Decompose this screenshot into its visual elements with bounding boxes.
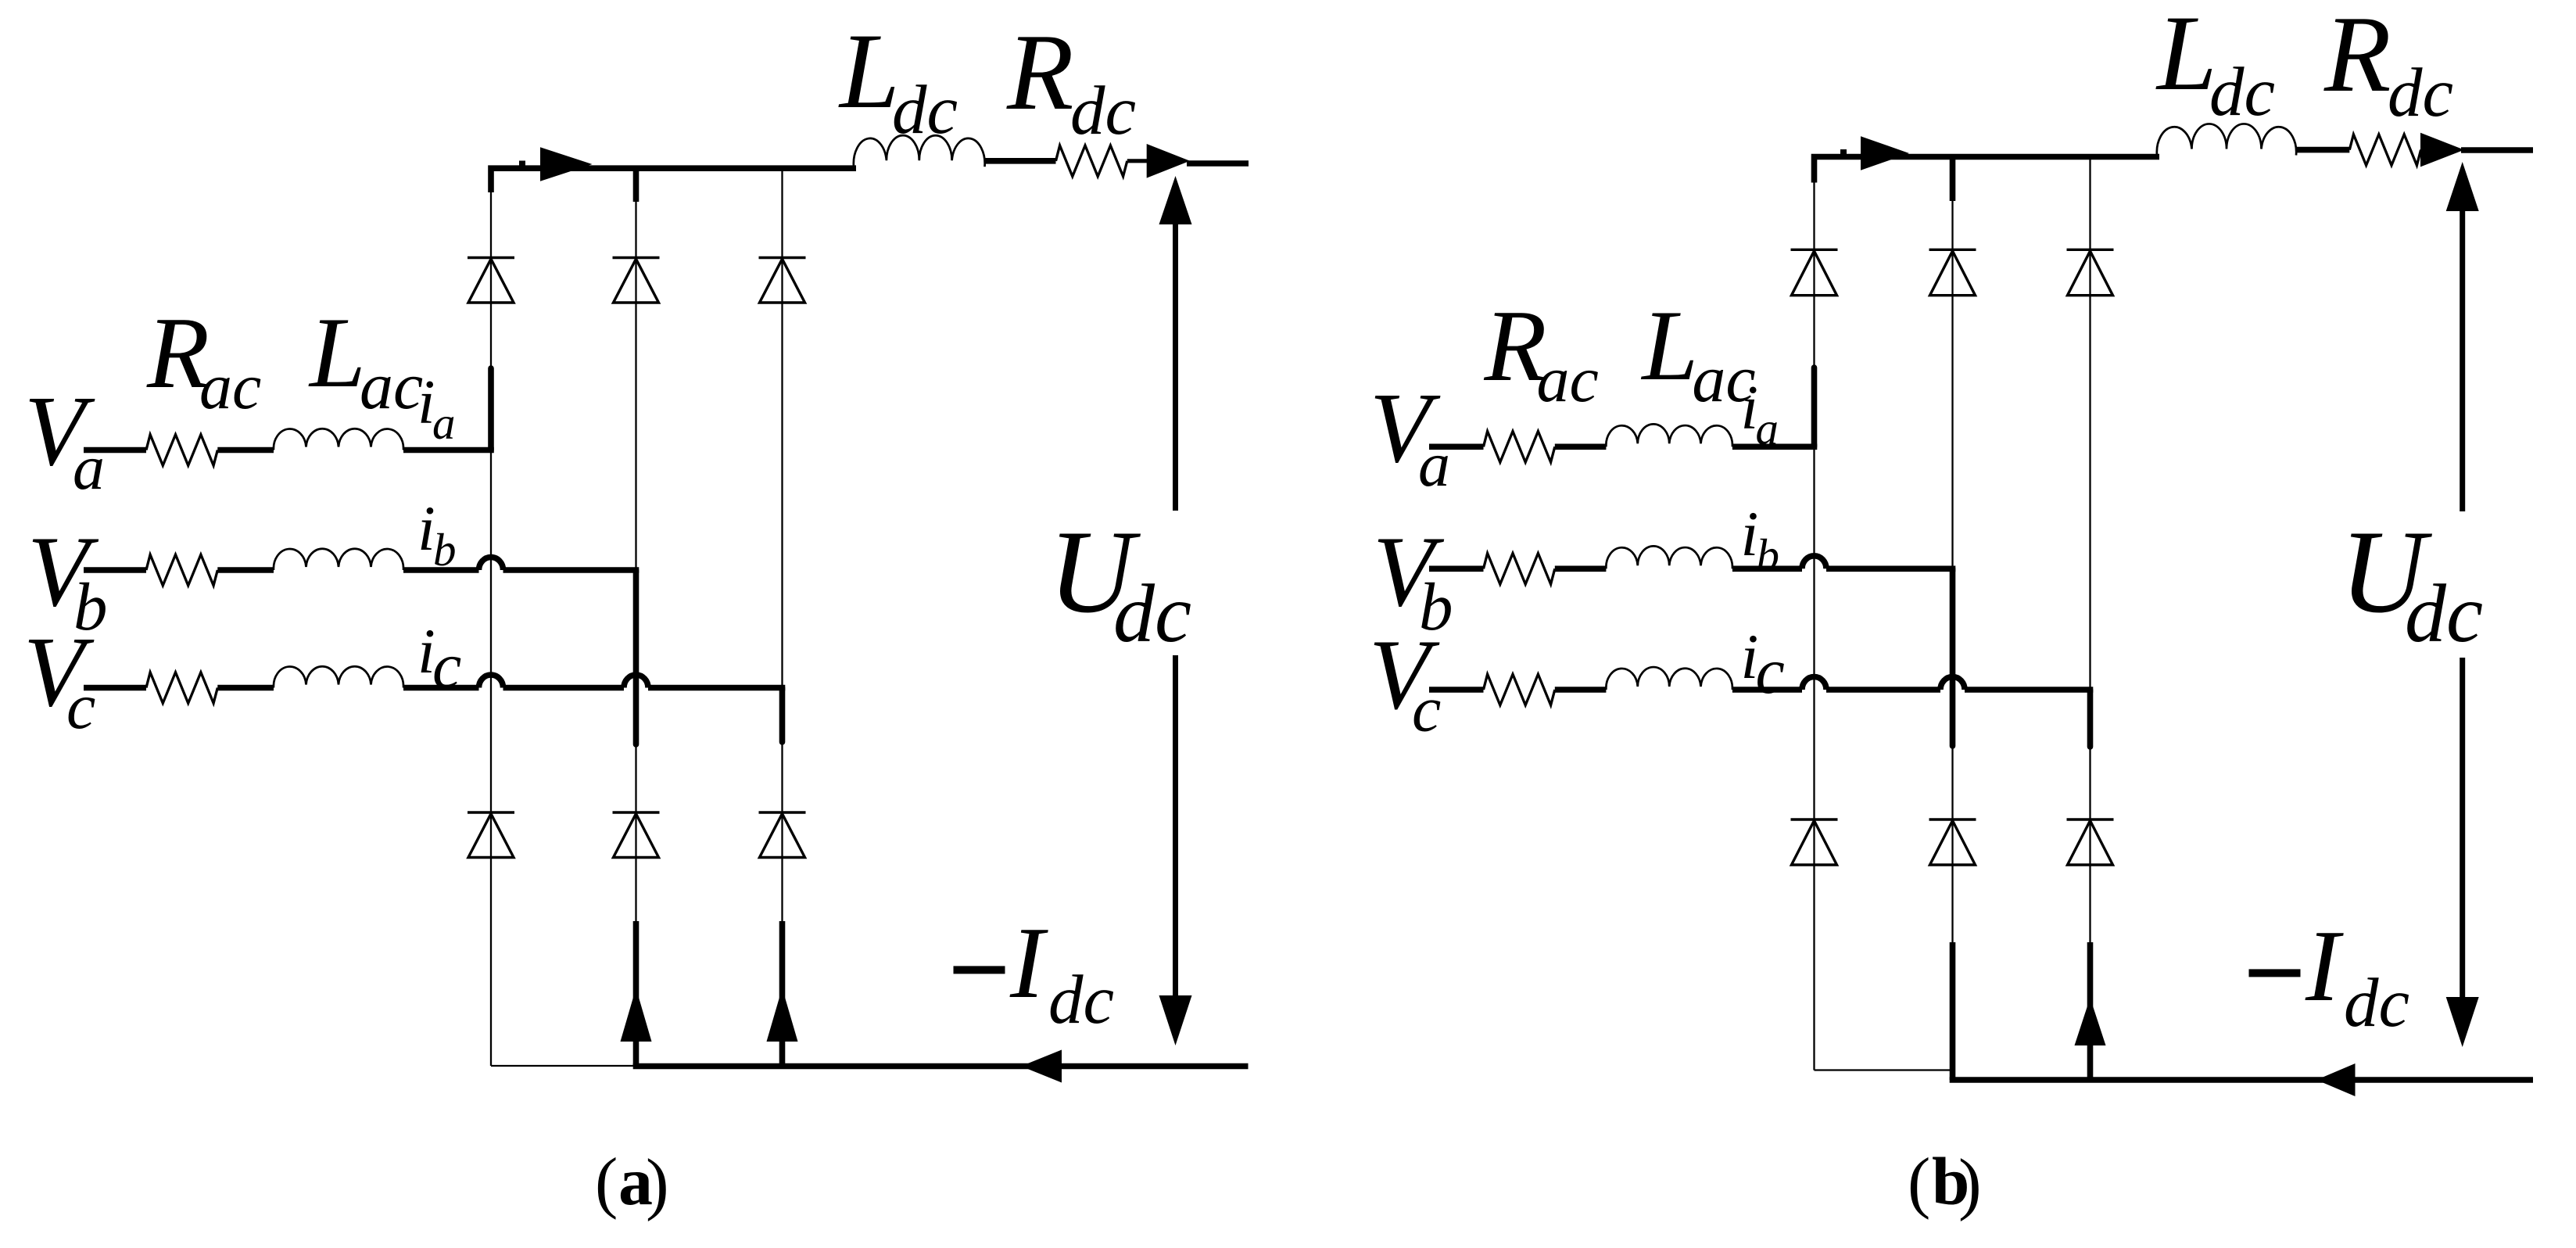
svg-text:ac: ac bbox=[1537, 343, 1599, 416]
svg-text:b: b bbox=[1757, 529, 1780, 581]
svg-text:ac: ac bbox=[199, 350, 261, 423]
svg-text:dc: dc bbox=[1070, 73, 1136, 149]
svg-text:dc: dc bbox=[892, 72, 958, 149]
svg-text:a: a bbox=[432, 397, 456, 449]
svg-text:a: a bbox=[1418, 429, 1450, 500]
svg-text:(: ( bbox=[1908, 1145, 1930, 1221]
svg-text:c: c bbox=[1412, 673, 1441, 746]
svg-text:dc: dc bbox=[2405, 568, 2483, 659]
svg-text:R: R bbox=[1006, 12, 1074, 133]
svg-text:a: a bbox=[73, 432, 105, 503]
svg-text:c: c bbox=[432, 629, 461, 702]
svg-text:I: I bbox=[1009, 906, 1048, 1020]
svg-text:dc: dc bbox=[2388, 55, 2453, 131]
svg-text:c: c bbox=[66, 670, 95, 743]
svg-text:L: L bbox=[1640, 289, 1698, 401]
svg-text:I: I bbox=[2305, 909, 2344, 1023]
svg-text:dc: dc bbox=[2209, 54, 2275, 131]
svg-text:L: L bbox=[2155, 0, 2217, 113]
svg-text:): ) bbox=[646, 1146, 669, 1222]
svg-text:L: L bbox=[838, 11, 900, 131]
svg-text:c: c bbox=[1756, 635, 1785, 708]
svg-text:b: b bbox=[433, 524, 457, 576]
svg-text:ac: ac bbox=[360, 348, 423, 423]
svg-text:dc: dc bbox=[1048, 962, 1114, 1038]
svg-text:(: ( bbox=[595, 1145, 618, 1221]
svg-text:dc: dc bbox=[2344, 965, 2409, 1042]
svg-text:L: L bbox=[308, 296, 366, 408]
svg-text:dc: dc bbox=[1113, 568, 1191, 659]
svg-text:a: a bbox=[1756, 403, 1779, 454]
svg-text:R: R bbox=[2323, 0, 2391, 115]
svg-text:): ) bbox=[1958, 1146, 1982, 1222]
